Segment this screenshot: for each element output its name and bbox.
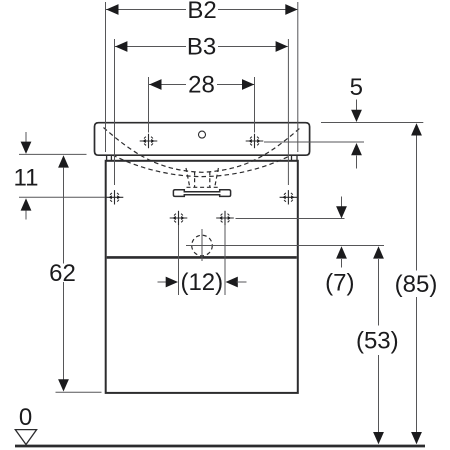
(12) extension line left [178, 225, 180, 295]
siphon hidden circle [192, 235, 213, 256]
drawer divider [107, 256, 297, 259]
svg-text:(53): (53) [356, 328, 399, 355]
(12) left arrow stem [158, 281, 168, 283]
5 upper arrow stem [356, 100, 358, 111]
11 up arrow [21, 198, 32, 210]
(12) arrow pointing right [166, 277, 178, 288]
(12) right arrow stem [237, 281, 247, 283]
svg-text:B3: B3 [187, 34, 216, 61]
drawer handle [173, 190, 230, 197]
floor line [15, 445, 425, 448]
28 arrow right [242, 79, 254, 90]
(53) stem lower [378, 355, 380, 439]
siphon vertical centerline [201, 229, 203, 261]
datum triangle [15, 430, 36, 445]
basin top reference line for 5/(85) [321, 122, 423, 124]
cabinet body [106, 161, 298, 393]
B3 extension line right [287, 39, 289, 185]
5 down arrow [351, 110, 362, 122]
svg-text:0: 0 [19, 404, 32, 431]
tap hole [199, 131, 206, 138]
B2 extension line left [105, 2, 107, 152]
62 stem lower [63, 282, 65, 380]
siphon horizontal centerline / (7)(53) reference line [186, 245, 384, 247]
hole row reference line for 5 (lower) [264, 141, 364, 143]
(7) up arrow stem [341, 259, 343, 268]
dimension B2 line [106, 9, 186, 11]
B2 arrow right [285, 4, 297, 15]
B2 extension line right [297, 2, 299, 152]
svg-text:(85): (85) [395, 271, 438, 298]
62 baseline [56, 391, 102, 393]
(12) extension line right [224, 225, 226, 295]
svg-text:B2: B2 [187, 0, 216, 24]
svg-text:11: 11 [14, 165, 39, 192]
11 up arrow stem [25, 211, 27, 220]
(53) up arrow [373, 246, 384, 258]
(53) stem upper [378, 259, 380, 326]
62 stem upper [63, 167, 65, 263]
28 arrow left [149, 79, 161, 90]
dimension 28 line [149, 84, 186, 86]
bowl hidden edge lower curve [113, 155, 292, 177]
dimension B3 line [115, 46, 186, 48]
5 lower arrow stem [356, 156, 358, 169]
svg-text:(7): (7) [325, 270, 354, 297]
B2 arrow left [106, 4, 118, 15]
(7) up arrow [336, 246, 347, 258]
svg-text:62: 62 [49, 260, 76, 287]
B3 arrow right [276, 41, 288, 52]
mounting hole crosshair upper left [140, 134, 158, 148]
mounting hole crosshair outer right [280, 190, 298, 204]
(12) arrow pointing left [226, 277, 238, 288]
(85) stem upper [416, 136, 418, 271]
62 down arrow [58, 379, 69, 391]
(85) down arrow [411, 432, 422, 444]
62 up arrow [58, 155, 69, 167]
svg-text:5: 5 [350, 74, 363, 101]
washbasin outline [95, 123, 310, 156]
mounting hole crosshair middle left [170, 211, 188, 225]
28 extension line left [148, 77, 150, 133]
(85) up arrow [411, 123, 422, 135]
(85) stem lower [416, 297, 418, 439]
(7) down arrow [336, 206, 347, 218]
11 upper reference line [19, 153, 87, 155]
mounting hole crosshair middle right [216, 211, 234, 225]
svg-text:28: 28 [188, 72, 215, 99]
11 down arrow stem [25, 132, 27, 142]
bowl hidden edge upper curve [104, 128, 301, 173]
(7) down arrow stem [341, 197, 343, 207]
B3 extension line left [114, 39, 116, 185]
(53) down arrow [373, 432, 384, 444]
mounting hole crosshair upper right [246, 134, 264, 148]
svg-text:(12): (12) [180, 269, 223, 296]
mounting hole crosshair outer left [106, 190, 124, 204]
basin foot ticks [107, 155, 297, 160]
11 down arrow [21, 142, 32, 154]
28 extension line right [254, 77, 256, 133]
B3 arrow left [115, 41, 127, 52]
5 up arrow [351, 143, 362, 155]
crosshair row reference line for (7) [236, 218, 345, 220]
11 lower reference line [19, 196, 105, 198]
drain outlet hidden lines [186, 168, 218, 187]
